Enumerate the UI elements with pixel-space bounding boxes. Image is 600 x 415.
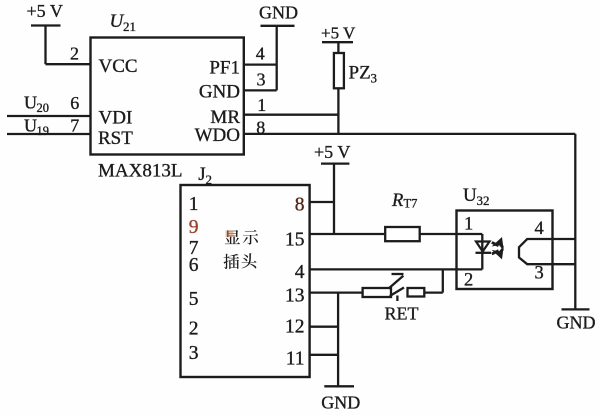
svg-text:3: 3 xyxy=(257,70,266,90)
svg-text:2: 2 xyxy=(464,271,473,291)
svg-text:MAX813L: MAX813L xyxy=(98,161,182,182)
svg-text:+5 V: +5 V xyxy=(314,142,350,162)
svg-text:8: 8 xyxy=(295,195,305,216)
svg-text:7: 7 xyxy=(70,115,79,135)
svg-text:4: 4 xyxy=(295,262,305,283)
svg-text:4: 4 xyxy=(535,219,544,239)
svg-text:2: 2 xyxy=(70,43,79,63)
svg-text:T7: T7 xyxy=(404,196,418,210)
svg-text:PZ: PZ xyxy=(349,62,371,83)
svg-text:VCC: VCC xyxy=(99,56,138,77)
svg-text:+5 V: +5 V xyxy=(27,1,63,21)
svg-text:R: R xyxy=(391,191,403,211)
svg-text:13: 13 xyxy=(285,286,305,307)
svg-text:12: 12 xyxy=(285,317,305,338)
svg-text:1: 1 xyxy=(464,215,473,235)
svg-text:GND: GND xyxy=(557,312,596,332)
svg-text:1: 1 xyxy=(257,95,266,115)
svg-text:RET: RET xyxy=(385,304,419,324)
svg-text:32: 32 xyxy=(477,193,490,208)
svg-text:5: 5 xyxy=(189,289,199,310)
svg-text:U: U xyxy=(24,115,37,135)
svg-text:3: 3 xyxy=(535,263,544,283)
svg-text:GND: GND xyxy=(199,82,240,103)
svg-text:U: U xyxy=(24,93,37,113)
svg-text:1: 1 xyxy=(189,194,199,215)
svg-text:4: 4 xyxy=(256,44,265,64)
svg-text:3: 3 xyxy=(371,70,378,85)
svg-text:2: 2 xyxy=(206,172,213,187)
svg-text:3: 3 xyxy=(189,343,199,364)
svg-text:VDI: VDI xyxy=(99,108,133,129)
svg-text:RST: RST xyxy=(98,128,133,149)
svg-text:6: 6 xyxy=(189,255,199,276)
svg-text:GND: GND xyxy=(259,3,298,23)
svg-text:21: 21 xyxy=(123,19,136,34)
svg-text:U: U xyxy=(463,185,477,206)
svg-text:2: 2 xyxy=(189,319,199,340)
svg-text:8: 8 xyxy=(256,118,265,138)
svg-text:19: 19 xyxy=(37,124,50,138)
svg-text:11: 11 xyxy=(286,349,305,370)
svg-text:GND: GND xyxy=(321,393,360,413)
svg-text:20: 20 xyxy=(37,101,50,115)
svg-text:PF1: PF1 xyxy=(209,57,240,78)
svg-text:WDO: WDO xyxy=(195,125,240,146)
svg-text:9: 9 xyxy=(189,217,199,238)
svg-text:+5 V: +5 V xyxy=(321,24,356,43)
svg-text:6: 6 xyxy=(70,93,79,113)
svg-text:15: 15 xyxy=(285,230,305,251)
